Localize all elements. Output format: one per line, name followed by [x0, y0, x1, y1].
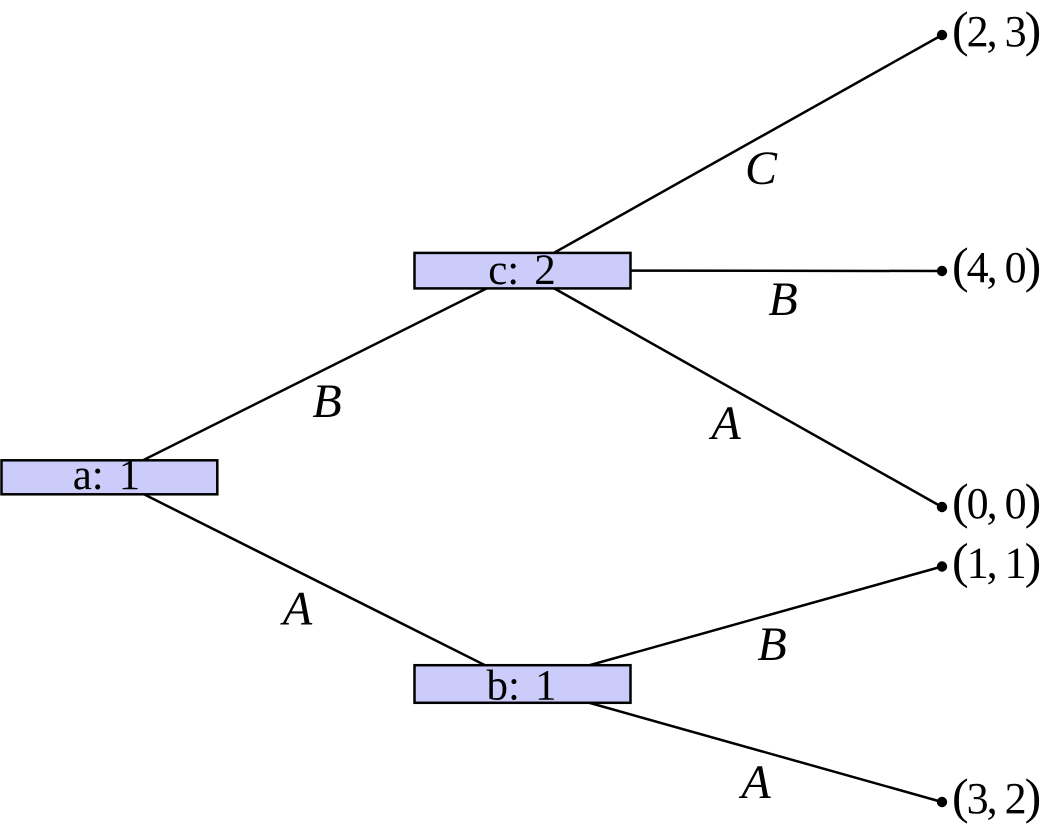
- svg-text:(2, 3): (2, 3): [952, 1, 1040, 57]
- svg-text:A: A: [738, 756, 771, 809]
- svg-text:B: B: [312, 375, 341, 428]
- wire a-b: [110, 477, 523, 684]
- svg-text:(0, 0): (0, 0): [952, 473, 1040, 529]
- svg-text:B: B: [768, 273, 797, 326]
- svg-text:A: A: [708, 397, 741, 450]
- leaf dot (4,0): [937, 266, 947, 276]
- leaf dot (2,3): [937, 30, 947, 40]
- wire c-leaf23: [523, 35, 943, 271]
- wire b-leaf11: [523, 567, 943, 685]
- svg-text:B: B: [757, 618, 786, 671]
- svg-text:A: A: [280, 583, 313, 636]
- leaf dot (3,2): [937, 797, 947, 807]
- svg-text:(3, 2): (3, 2): [952, 768, 1040, 824]
- node a box: [2, 460, 218, 494]
- svg-text:(4, 0): (4, 0): [952, 237, 1040, 293]
- leaf dot (0,0): [937, 502, 947, 512]
- leaf dot (1,1): [937, 561, 947, 571]
- wire b-leaf32: [523, 684, 943, 802]
- node b box: [415, 665, 631, 703]
- svg-text:(1, 1): (1, 1): [952, 533, 1040, 589]
- node c box: [415, 253, 631, 289]
- wire a-c: [110, 271, 523, 478]
- wire c-leaf00: [523, 271, 943, 508]
- wire c-leaf40: [523, 269, 943, 272]
- svg-text:C: C: [745, 142, 778, 195]
